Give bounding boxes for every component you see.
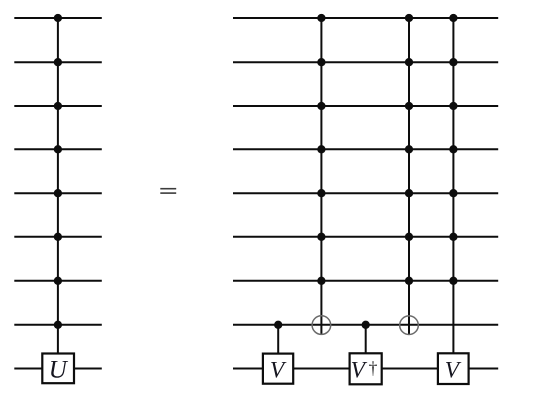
control dot v3-q6 [449,233,457,241]
control dot v2-q7 [405,277,413,285]
gate Vdagger box [350,353,382,384]
wire R-q1 [233,17,498,19]
wire R-q9 segment 2 [293,368,349,370]
control dot v3-q4 [449,145,457,153]
wire L-q2 [14,61,102,63]
wire L-q3 [14,105,102,107]
control dot v1-q6 [317,233,325,241]
control stub CVdg-2 [365,325,367,354]
control dot v1-q2 [317,58,325,66]
control dot L-q6 [54,233,62,241]
control dot v2-q5 [405,189,413,197]
wire R-q3 [233,105,498,107]
control dot v2-q1 [405,14,413,22]
wire L-q9 right stub [74,368,102,370]
control dot v3-q7 [449,277,457,285]
control dot L-q8 [54,321,62,329]
svg-text:U: U [49,356,69,383]
CNOT target 2 [400,316,419,335]
wire R-q4 [233,148,498,150]
control dot q8-CV [274,321,282,329]
control dot v2-q6 [405,233,413,241]
wire R-q8 [233,324,498,326]
control dot v3-q2 [449,58,457,66]
control line left circuit [57,18,59,354]
control line CNOT-2 [408,18,410,335]
control line CV-3 [452,18,454,353]
control dot v1-q7 [317,277,325,285]
wire R-q9 segment 3 [382,368,438,370]
control dot L-q7 [54,277,62,285]
equals sign [160,188,176,194]
control dot L-q1 [54,14,62,22]
wire R-q9 segment 4 [469,368,499,370]
control dot L-q3 [54,102,62,110]
wire R-q2 [233,61,498,63]
control dot v1-q1 [317,14,325,22]
control dot v1-q3 [317,102,325,110]
control dot v1-q5 [317,189,325,197]
wire L-q8 [14,324,102,326]
wire L-q7 [14,280,102,282]
wire L-q1 [14,17,102,19]
control stub CV-1 [277,325,279,354]
gate V2 box [438,353,469,384]
control line CNOT-1 [320,18,322,334]
wire R-q5 [233,192,498,194]
control dot v2-q4 [405,145,413,153]
CNOT target 1 [312,316,331,335]
control dot v1-q4 [317,145,325,153]
control dot v2-q3 [405,102,413,110]
wire L-q6 [14,236,102,238]
wire L-q9 left stub [14,368,42,370]
svg-text:†: † [369,358,378,378]
wire R-q6 [233,236,498,238]
wire L-q5 [14,192,102,194]
control dot v3-q5 [449,189,457,197]
control dot v3-q1 [449,14,457,22]
control dot L-q4 [54,145,62,153]
control dot v2-q2 [405,58,413,66]
wire R-q7 [233,280,498,282]
control dot L-q5 [54,189,62,197]
gate V1 box [263,354,293,384]
wire L-q4 [14,148,102,150]
wire R-q9 segment 1 [233,368,263,370]
control dot q8-CVdg [362,321,370,329]
gate U box [42,354,74,384]
control dot L-q2 [54,58,62,66]
control dot v3-q3 [449,102,457,110]
